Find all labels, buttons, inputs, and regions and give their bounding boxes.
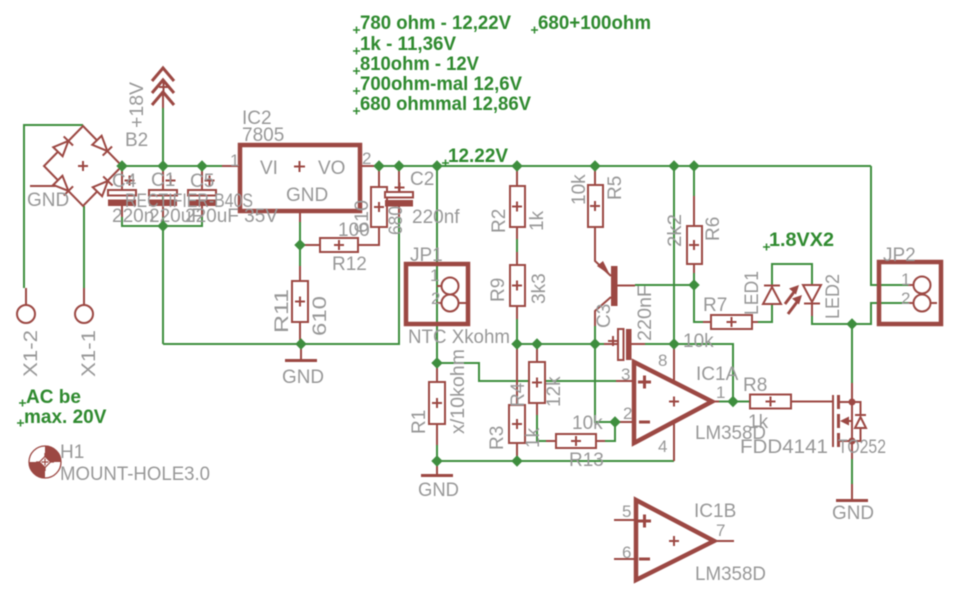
wire source to GND — [851, 459, 853, 484]
svg-text:2: 2 — [362, 149, 371, 168]
junction C5 top — [196, 160, 207, 171]
resistor R1 x/10kohm — [429, 363, 445, 445]
wire GND rail left (caps/R11/C2 bottom) — [163, 217, 399, 344]
svg-text:1k: 1k — [748, 412, 769, 433]
ground symbol below R1 — [421, 461, 453, 476]
LED glow arrows — [785, 285, 802, 314]
wire op-amp output to R8 — [719, 401, 750, 403]
wire B2 right corner to IC2 pin1 (net +18V) — [122, 165, 222, 167]
pin header JP1 — [406, 264, 468, 324]
capacitor C1 — [149, 167, 177, 217]
svg-text:1: 1 — [230, 151, 239, 170]
junction C3 left — [589, 338, 600, 349]
svg-text:780 ohm - 12,22V: 780 ohm - 12,22V — [360, 13, 511, 34]
svg-text:C3: C3 — [594, 304, 615, 328]
svg-text:1: 1 — [901, 270, 910, 289]
svg-text:8: 8 — [658, 351, 667, 370]
svg-text:R3: R3 — [487, 426, 508, 450]
wire +18V supply vertical — [162, 108, 164, 344]
svg-text:2: 2 — [901, 289, 910, 308]
junction R2 top — [511, 160, 522, 171]
svg-text:1k: 1k — [527, 210, 548, 231]
svg-text:MOUNT-HOLE3.0: MOUNT-HOLE3.0 — [60, 464, 210, 485]
svg-text:220nf: 220nf — [412, 207, 460, 228]
junction NTC top — [431, 160, 442, 171]
capacitor C3 220nF — [604, 329, 645, 360]
svg-text:X1-2: X1-2 — [21, 330, 42, 377]
wire base node down to R7 — [694, 285, 703, 322]
pin header JP2 — [879, 262, 941, 324]
ground symbol below R11 — [285, 344, 317, 361]
svg-text:+18V: +18V — [127, 82, 148, 128]
wire R9 bottom to mid rail — [516, 319, 518, 344]
svg-text:4: 4 — [658, 437, 667, 456]
rectifier bridge B2 — [30, 126, 122, 206]
svg-text:10k: 10k — [683, 331, 714, 352]
svg-text:R5: R5 — [605, 176, 626, 200]
svg-text:TO252: TO252 — [838, 437, 886, 458]
junction R1 top node — [431, 357, 442, 368]
wire 12.22V rail down to JP2 pin1 — [871, 166, 908, 285]
wire LED tops bracket — [772, 264, 812, 285]
resistor R13 10k — [546, 434, 605, 448]
wire R2-R9 link — [516, 239, 518, 252]
wire B2 bottom to X1-1 — [83, 206, 85, 288]
svg-text:LM358D: LM358D — [695, 564, 766, 585]
wire R1 bottom to GND rail — [436, 445, 438, 461]
wire X1-2 to B2 top — [24, 125, 83, 288]
junction C1 top — [157, 160, 168, 171]
wire collector/C3 node vertical to pin2 — [595, 326, 615, 422]
svg-text:GND: GND — [282, 367, 324, 388]
svg-text:AC be: AC be — [26, 387, 81, 408]
svg-text:680 ohmmal 12,86V: 680 ohmmal 12,86V — [360, 94, 531, 115]
svg-text:R11: R11 — [272, 289, 293, 333]
resistor R7 10k — [703, 315, 758, 329]
svg-text:H1: H1 — [60, 442, 84, 463]
junction output node — [727, 396, 738, 407]
voltage regulator IC2 7805 — [222, 145, 376, 222]
resistor R5 10k — [588, 167, 603, 227]
svg-text:R1: R1 — [409, 410, 430, 434]
svg-text:GND: GND — [418, 480, 459, 501]
junction R1 bottom gnd — [431, 455, 442, 466]
junction R4 top — [531, 338, 542, 349]
MOSFET FDD4141 — [791, 383, 866, 459]
svg-text:2: 2 — [623, 404, 632, 423]
svg-text:LED1: LED1 — [742, 271, 763, 315]
svg-text:1k: 1k — [523, 427, 544, 448]
resistor R8 1k — [750, 395, 791, 409]
junction R3 top — [511, 338, 522, 349]
svg-text:GND: GND — [27, 190, 69, 211]
svg-text:NTC Xkohm: NTC Xkohm — [408, 327, 510, 348]
svg-text:R9: R9 — [488, 278, 509, 302]
capacitor C4 — [108, 167, 136, 217]
svg-text:IC1B: IC1B — [694, 501, 736, 522]
svg-text:2k2: 2k2 — [665, 214, 686, 247]
resistor R11 610 — [292, 266, 308, 344]
svg-text:R8: R8 — [743, 375, 767, 396]
svg-text:680: 680 — [386, 206, 407, 235]
resistor R12 100 — [302, 227, 379, 252]
svg-text:GND: GND — [832, 503, 874, 524]
svg-text:FDD4141: FDD4141 — [740, 437, 828, 458]
supply symbol +18V — [152, 68, 174, 108]
ground symbol below MOSFET — [836, 484, 868, 501]
svg-text:B2: B2 — [125, 130, 148, 151]
junction pin2 node — [609, 416, 620, 427]
wire R4 bottom to R13 left — [537, 415, 546, 441]
svg-text:1.8VX2: 1.8VX2 — [769, 230, 834, 251]
wire R7 right to LED1 bottom — [758, 305, 772, 322]
junction R11 bottom — [295, 338, 306, 349]
svg-text:max. 20V: max. 20V — [24, 407, 107, 428]
svg-text:10k: 10k — [569, 174, 590, 205]
capacitor C2 — [385, 167, 413, 217]
svg-text:5: 5 — [622, 502, 631, 521]
wire IC2 pin3 to R11/R12 node — [299, 222, 301, 266]
resistor R9 3k3 — [510, 252, 525, 319]
svg-text:X1-1: X1-1 — [79, 330, 100, 377]
svg-text:R4: R4 — [508, 382, 529, 407]
svg-text:R7: R7 — [703, 295, 727, 316]
junction drain node — [846, 318, 857, 329]
junction IC2 gnd pin — [294, 239, 305, 250]
svg-text:VO: VO — [318, 158, 345, 179]
resistor 610 (vertical, right of IC2) — [371, 167, 387, 227]
op-amp IC1A — [615, 344, 719, 461]
junction R6 bottom / base — [688, 279, 699, 290]
svg-text:10k: 10k — [572, 413, 603, 434]
svg-text:6: 6 — [622, 543, 631, 562]
wire rail down to IC1A pin8 — [673, 166, 675, 344]
svg-text:700ohm-mal 12,6V: 700ohm-mal 12,6V — [360, 74, 522, 95]
connector pad X1-1 — [75, 288, 93, 323]
wire capacitor bottom rail — [122, 217, 202, 226]
wire NTC vertical through JP1 — [436, 166, 438, 363]
svg-text:1: 1 — [716, 383, 725, 402]
transistor (PNP) — [595, 227, 635, 326]
svg-text:220nF: 220nF — [635, 285, 656, 341]
svg-text:220n: 220n — [112, 206, 154, 227]
LED2 — [803, 285, 821, 316]
wire C3 right to output feedback — [645, 344, 733, 402]
op-amp IC1B — [614, 500, 734, 580]
svg-text:220uF 35V: 220uF 35V — [185, 206, 278, 227]
resistor R4 12k — [529, 344, 545, 415]
wire R1 node to op-amp pin3 — [437, 363, 616, 381]
wire transistor base to R6 node — [635, 284, 694, 286]
svg-text:12.22V: 12.22V — [448, 146, 508, 167]
svg-text:C1: C1 — [151, 170, 175, 191]
svg-text:VI: VI — [260, 158, 278, 179]
junction C2 top — [393, 160, 404, 171]
svg-text:610: 610 — [352, 200, 373, 233]
svg-text:680+100ohm: 680+100ohm — [538, 13, 651, 34]
connector pad X1-2 — [17, 288, 35, 323]
svg-text:IC1A: IC1A — [696, 364, 739, 385]
wire rail down to R6 top — [693, 166, 695, 196]
svg-text:C2: C2 — [410, 169, 434, 190]
junction R3 bottom gnd — [511, 455, 522, 466]
wire drain vertical — [851, 324, 853, 383]
resistor R3 1k — [509, 344, 525, 461]
mount hole H1 — [29, 446, 61, 478]
svg-text:7805: 7805 — [242, 125, 284, 146]
svg-text:3: 3 — [621, 365, 630, 384]
capacitor C5 — [188, 167, 216, 217]
junction R6 top — [688, 160, 699, 171]
svg-text:R6: R6 — [703, 217, 724, 241]
svg-text:R12: R12 — [332, 254, 367, 275]
svg-text:610: 610 — [310, 296, 331, 336]
svg-text:7: 7 — [716, 521, 725, 540]
junction pin8 rail — [668, 160, 679, 171]
svg-text:R2: R2 — [489, 209, 510, 233]
resistor R2 1k — [510, 167, 525, 239]
resistor R6 2k2 — [687, 196, 702, 273]
svg-text:3k3: 3k3 — [529, 273, 550, 304]
svg-text:JP1: JP1 — [410, 245, 443, 266]
svg-text:GND: GND — [286, 185, 328, 206]
svg-text:2: 2 — [431, 289, 440, 308]
svg-text:R13: R13 — [569, 450, 604, 471]
LED1 — [763, 285, 781, 304]
svg-text:C4: C4 — [112, 171, 137, 192]
wire R13 right up to pin2 junction — [605, 422, 615, 441]
junction R5 top — [589, 160, 600, 171]
junction 610 top — [373, 160, 384, 171]
svg-text:JP2: JP2 — [883, 245, 916, 266]
svg-text:1k - 11,36V: 1k - 11,36V — [360, 34, 456, 55]
junction pin8 node — [668, 338, 679, 349]
wire R6 bottom node — [693, 273, 695, 285]
svg-text:C5: C5 — [190, 171, 214, 192]
wire mid rail R3/R4 tops to C3 — [517, 343, 604, 345]
wire LED2 bottom to JP2 pin2 and MOSFET drain — [812, 303, 908, 324]
wire IC2 pin2 to top 12.22V rail — [376, 165, 871, 167]
wire GND rail bottom (R1,R3,pin4) — [437, 460, 674, 462]
svg-text:1: 1 — [430, 266, 439, 285]
svg-text:x/10kohm: x/10kohm — [448, 349, 469, 434]
junction B2 out — [116, 160, 127, 171]
svg-text:810ohm - 12V: 810ohm - 12V — [360, 54, 479, 75]
svg-text:LED2: LED2 — [823, 274, 844, 319]
svg-text:12k: 12k — [544, 376, 565, 407]
junction cap gnd rail — [157, 220, 168, 231]
